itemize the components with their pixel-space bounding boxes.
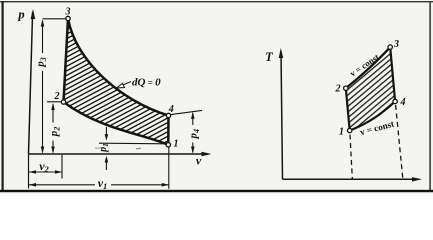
p axis — [29, 12, 33, 154]
dashed line from node 4 — [396, 105, 403, 179]
label v=const lower — [359, 118, 396, 137]
node 2 leader — [47, 101, 62, 103]
svg-text:1: 1 — [339, 127, 344, 138]
svg-text:4: 4 — [168, 104, 174, 115]
node 4 leader — [171, 110, 202, 114]
node 1 circle — [166, 143, 170, 147]
frame right border — [429, 1, 431, 191]
svg-text:2: 2 — [54, 91, 60, 102]
node 2 circle (T-s) — [344, 86, 348, 90]
node 1 extension line — [168, 147, 170, 189]
node 1 leader — [99, 142, 166, 145]
cycle 1-2-3-4 hatched area — [346, 47, 395, 130]
node 2 circle — [61, 100, 65, 104]
dimension p4 — [192, 113, 194, 125]
svg-text:3: 3 — [393, 39, 399, 50]
v axis — [28, 153, 204, 155]
svg-text:dQ = 0: dQ = 0 — [132, 77, 161, 89]
svg-text:3: 3 — [65, 7, 71, 18]
dimension v1 — [29, 184, 95, 186]
dimension p2 — [52, 104, 54, 123]
svg-text:p: p — [17, 8, 24, 22]
dimension p3 — [42, 21, 44, 54]
frame top border — [0, 1, 433, 2]
label p4 — [187, 129, 201, 140]
node 3 circle (T-s) — [388, 45, 392, 49]
svg-text:2: 2 — [335, 84, 341, 95]
p axis extension below v axis — [28, 154, 30, 189]
cycle 1-2-3-4 hatched area — [64, 19, 169, 145]
dashed line from node 1 — [350, 135, 352, 179]
node 4 circle — [166, 113, 170, 117]
frame bottom border — [0, 190, 433, 192]
svg-text:v: v — [196, 154, 202, 168]
label p2 — [48, 127, 62, 138]
frame left border — [2, 1, 4, 191]
adiabat label dQ=0 with arrow — [120, 82, 132, 87]
label v=const upper — [348, 52, 381, 79]
dimension v2 — [29, 171, 62, 173]
svg-text:1: 1 — [174, 139, 179, 150]
label p3 — [35, 57, 49, 68]
node 4 circle (T-s) — [393, 99, 397, 103]
dimension p1 (outside arrows) — [105, 127, 107, 137]
node 1 circle (T-s) — [348, 128, 352, 132]
s axis — [283, 178, 415, 180]
v2 extension line — [61, 155, 63, 179]
svg-text:4: 4 — [400, 97, 406, 108]
node 3 leader — [43, 18, 66, 20]
faint scan streaks — [95, 147, 101, 150]
node 3 circle — [66, 16, 70, 20]
label p1 — [98, 143, 110, 153]
T axis — [281, 52, 283, 179]
